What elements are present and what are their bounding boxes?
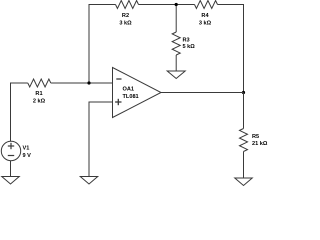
resistor R3 [172,32,180,55]
svg-text:3 kΩ: 3 kΩ [199,21,212,27]
svg-text:R2: R2 [122,13,129,19]
wire R3 bottom lead [175,55,177,71]
svg-text:OA1: OA1 [123,87,135,93]
op-amp OA1 triangle [113,68,162,118]
wire node C down to R5 [243,93,245,129]
svg-text:21 kΩ: 21 kΩ [252,141,268,147]
wire top rail between R2 and R4 [139,4,195,6]
svg-text:R5: R5 [252,134,259,140]
wire from R4 along top and down right rail to output node [218,5,244,93]
wire R3 branch from top rail junction [175,5,177,33]
resistor R4 [195,1,218,9]
wire from R1 to op-amp inverting input [51,82,113,84]
svg-text:9 V: 9 V [23,153,32,159]
ground under R3 [167,71,185,79]
wire V1 top lead up to inverting input rail [11,83,28,141]
wire non-inverting input to ground branch [89,102,113,177]
svg-text:TL081: TL081 [123,94,139,100]
op-amp non-inverting input marker [115,99,121,105]
wire op-amp output to node C [161,92,244,94]
voltage source V1 [1,141,20,160]
svg-text:R1: R1 [35,91,42,97]
wire feedback from node A up and along top rail to R2 [89,5,116,84]
resistor R1 [28,79,51,87]
svg-text:5 kΩ: 5 kΩ [183,44,196,50]
svg-text:V1: V1 [23,146,30,152]
node A junction dot feedback tap [87,81,90,84]
wire R5 bottom lead [243,152,245,179]
ground under V1 [2,177,20,185]
ground under R5 [235,178,253,186]
ground under non-inverting input branch [80,177,98,185]
svg-text:R3: R3 [183,38,190,44]
node B junction dot top rail R3 tap [175,3,178,6]
resistor R5 [240,129,248,152]
resistor R2 [116,1,139,9]
svg-text:3 kΩ: 3 kΩ [119,21,132,27]
svg-text:2 kΩ: 2 kΩ [33,99,46,105]
op-amp inverting input marker [116,78,121,80]
wire V1 bottom lead [10,161,12,177]
svg-text:R4: R4 [201,13,209,19]
node C junction dot output R5 tap [242,91,245,94]
